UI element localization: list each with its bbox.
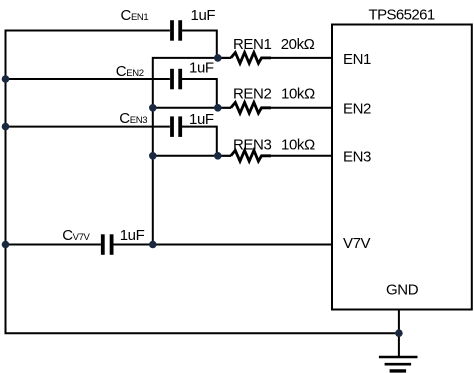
wire link row3 horizontal xyxy=(153,155,218,157)
svg-text:10kΩ: 10kΩ xyxy=(281,86,315,103)
capacitor CEN2 plates xyxy=(172,69,180,90)
node rail-V7V xyxy=(149,241,157,249)
node GND junction xyxy=(395,329,403,337)
wire link row2 horizontal xyxy=(153,107,218,109)
node EN3 junction xyxy=(214,152,222,160)
svg-text:1uF: 1uF xyxy=(189,60,214,77)
wire V7V row left (bus to CV7V) xyxy=(6,244,101,246)
svg-text:10kΩ: 10kΩ xyxy=(281,137,315,154)
svg-text:1uF: 1uF xyxy=(191,7,216,24)
svg-text:EN1: EN1 xyxy=(343,51,371,68)
resistor REN1 xyxy=(218,53,332,64)
svg-text:EN3: EN3 xyxy=(343,149,371,166)
node dots (junctions) xyxy=(2,54,403,337)
svg-text:V7V: V7V xyxy=(343,235,371,252)
wire row3 left (bus to CEN3) xyxy=(6,126,170,128)
svg-text:CEN2: CEN2 xyxy=(116,63,144,80)
svg-text:REN2: REN2 xyxy=(233,86,271,103)
wire CEN3 right to junction EN3 xyxy=(182,127,217,156)
resistor REN2 xyxy=(218,102,332,113)
wire GND bus: row1 left wire, left vertical bus, bottom wire xyxy=(6,31,399,334)
svg-text:CEN1: CEN1 xyxy=(121,7,149,24)
capacitor CEN1 plates xyxy=(172,20,180,41)
svg-text:CV7V: CV7V xyxy=(62,227,90,244)
node bus-V7V xyxy=(2,241,10,249)
svg-text:20kΩ: 20kΩ xyxy=(281,36,315,53)
wire CV7V right to V7V pin xyxy=(113,244,332,246)
node bus-row3 xyxy=(2,123,10,131)
svg-text:CEN3: CEN3 xyxy=(119,110,147,127)
wire link EN1 junction to vertical rail xyxy=(153,58,218,245)
svg-text:1uF: 1uF xyxy=(120,227,145,244)
svg-text:REN3: REN3 xyxy=(233,137,271,154)
svg-text:EN2: EN2 xyxy=(343,101,371,118)
node rail-row3 xyxy=(149,152,157,160)
wire CEN1 right to junction EN1 xyxy=(182,31,217,58)
wire CEN2 right to junction EN2 xyxy=(182,79,217,108)
resistor REN3 xyxy=(218,150,332,161)
node EN1 junction xyxy=(214,54,222,62)
capacitor CV7V plates xyxy=(103,234,112,255)
wire GND pin down xyxy=(398,310,400,357)
svg-text:TPS65261: TPS65261 xyxy=(369,7,435,24)
wire row2 left (bus to CEN2) xyxy=(6,78,170,80)
node EN2 junction xyxy=(214,104,222,112)
svg-text:GND: GND xyxy=(386,282,419,299)
svg-text:REN1: REN1 xyxy=(233,36,271,53)
ground symbol xyxy=(379,357,418,371)
capacitor CEN3 plates xyxy=(172,116,180,136)
IC U1 TPS65261 box xyxy=(332,25,472,310)
node rail-row2 xyxy=(149,104,157,112)
node bus-row2 xyxy=(2,75,10,83)
svg-text:1uF: 1uF xyxy=(189,111,214,128)
